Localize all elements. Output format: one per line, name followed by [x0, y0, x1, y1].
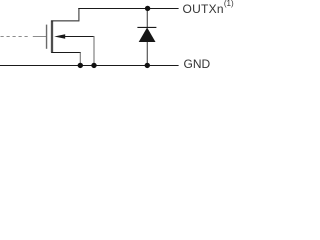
svg-text:(1): (1)	[224, 0, 234, 8]
svg-text:GND: GND	[184, 57, 211, 71]
svg-text:OUTXn: OUTXn	[183, 2, 224, 16]
